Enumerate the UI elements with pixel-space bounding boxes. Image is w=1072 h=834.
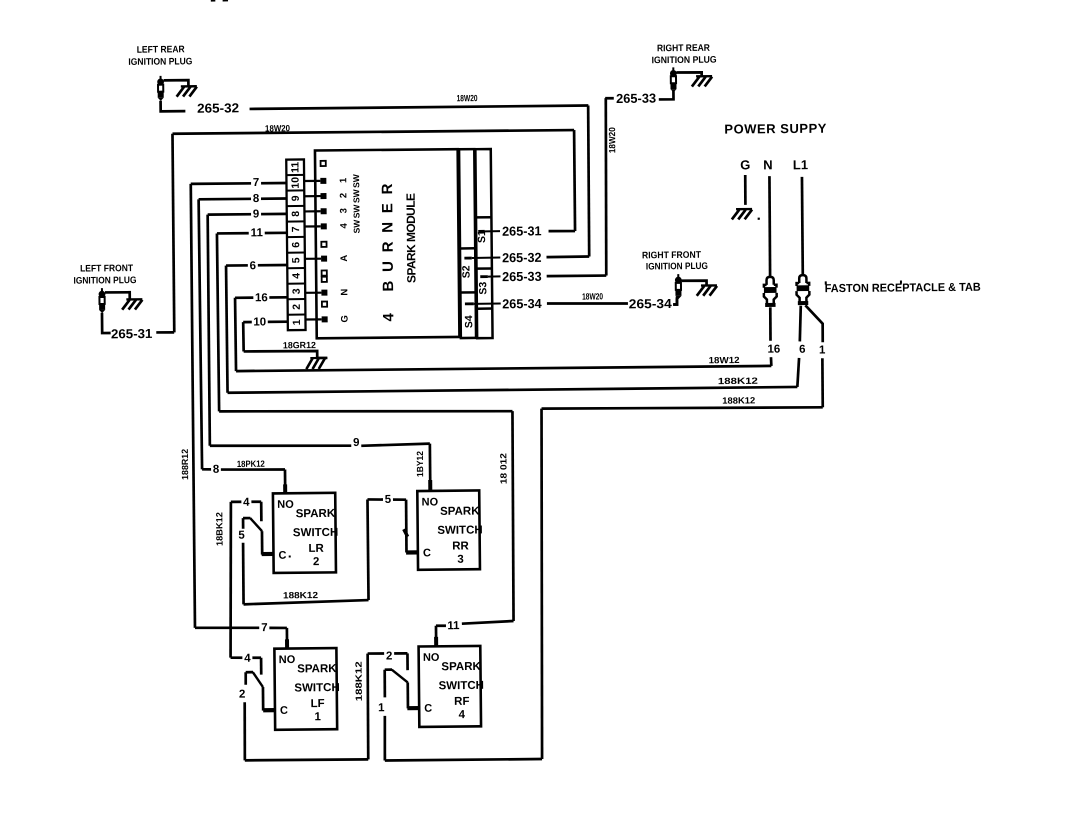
LF terminal 2 tick [244, 672, 247, 685]
wire S4 label to right front plug [547, 303, 628, 304]
wire strip to module pin [305, 258, 321, 260]
svg-text:3: 3 [339, 208, 350, 213]
svg-text:265-33: 265-33 [616, 91, 656, 106]
svg-text:11: 11 [289, 162, 301, 173]
svg-text:SPARK: SPARK [441, 661, 481, 673]
svg-text:SW: SW [351, 204, 361, 219]
spark plug left rear [160, 76, 162, 79]
svg-text:4: 4 [339, 222, 350, 228]
RF lever diagonal [392, 669, 408, 682]
svg-text:5: 5 [290, 257, 302, 263]
faston receptacle on N [766, 277, 773, 285]
wire LR 5 down [242, 543, 245, 605]
outer column divider [476, 267, 491, 270]
spark switch LF S1 box [274, 648, 337, 730]
svg-text:6: 6 [250, 260, 257, 272]
svg-text:6: 6 [799, 344, 806, 356]
svg-text:2: 2 [291, 304, 303, 310]
pin dash S3 [480, 275, 488, 278]
module connector strip J1 [286, 159, 305, 330]
wire terminal 11 riser [217, 233, 219, 411]
speck after C [289, 555, 291, 557]
wire 265-32 vertical drop [588, 106, 590, 257]
svg-text:LF: LF [311, 698, 325, 710]
wire left rear plug to 265-32 [161, 100, 186, 111]
outer column divider [476, 216, 491, 219]
svg-text:LEFT FRONT: LEFT FRONT [80, 263, 133, 275]
wire strip to module pin [304, 180, 320, 182]
wire 265-31 left riser [172, 134, 174, 333]
module output column inner [459, 149, 476, 338]
module pin (open) [322, 277, 327, 282]
wire right front plug to ground [681, 281, 706, 286]
svg-text:SPARK: SPARK [297, 663, 337, 675]
strip cell divider [287, 220, 305, 222]
svg-text:6: 6 [290, 242, 302, 248]
wire N faston to 16 [769, 307, 772, 340]
svg-text:IGNITION PLUG: IGNITION PLUG [73, 275, 136, 287]
svg-text:NO: NO [277, 499, 294, 511]
svg-text:IGNITION PLUG: IGNITION PLUG [128, 56, 192, 68]
svg-text:G: G [740, 157, 750, 172]
inner column divider [460, 291, 475, 294]
strip cell divider [287, 267, 305, 269]
svg-text:A: A [339, 255, 350, 262]
svg-text:RF: RF [454, 696, 469, 708]
module pin (filled) [321, 290, 327, 296]
wire 7 to LF NO [195, 627, 259, 628]
svg-text:NO: NO [423, 652, 440, 664]
svg-text:18W20: 18W20 [265, 123, 290, 133]
svg-text:18W20: 18W20 [607, 127, 617, 153]
wire RR5 riser [367, 499, 368, 600]
wire S3 to label [488, 275, 501, 277]
wire L1 faston tab branch diagonal [805, 305, 822, 342]
strip cell divider [287, 236, 305, 238]
wire terminal 16 riser [234, 298, 238, 371]
wire 265-34 hook to plug [673, 297, 677, 305]
svg-text:265-31: 265-31 [502, 223, 542, 238]
wire strip to module pin [304, 195, 320, 197]
svg-text:9: 9 [290, 195, 302, 201]
wire right rear plug to ground [676, 72, 701, 76]
svg-text:N: N [339, 289, 350, 296]
svg-text:16: 16 [255, 292, 268, 304]
svg-text:4: 4 [291, 273, 303, 279]
RF terminal 1 tick [383, 670, 386, 698]
svg-text:4 BURNER: 4 BURNER [379, 183, 397, 321]
wire strip to module pin [305, 318, 321, 320]
wire G down [744, 175, 747, 205]
wire strip to module pin [305, 225, 321, 227]
spark switch RF S4 box [419, 646, 481, 727]
svg-text:3: 3 [291, 288, 303, 294]
strip cell divider [287, 283, 305, 285]
svg-text:C: C [278, 550, 286, 562]
wire LR lever to common [261, 531, 264, 554]
svg-text:SWITCH: SWITCH [293, 527, 338, 539]
svg-text:SPARK: SPARK [440, 505, 480, 517]
spark plug right front [677, 274, 679, 277]
wire 6 to 18BK12 corner [797, 358, 799, 387]
svg-text:1: 1 [378, 702, 385, 714]
wire 18BK12 LR5 to RR5 [244, 600, 369, 604]
wire S1 to label [485, 230, 500, 232]
strip cell divider [288, 298, 306, 300]
wire right front plug to 265-34 [673, 298, 677, 304]
svg-text:4: 4 [243, 497, 250, 509]
RF terminal label 11 bg [445, 620, 461, 633]
svg-text:18W20: 18W20 [582, 291, 603, 301]
wire terminal 8 riser [199, 199, 202, 469]
svg-text:4: 4 [459, 709, 466, 721]
module pin (open) [321, 161, 326, 166]
wire module terminal 10 [243, 320, 288, 323]
svg-text:SWITCH: SWITCH [439, 680, 484, 692]
wire module terminal 6 [226, 264, 287, 267]
svg-text:7: 7 [253, 177, 260, 189]
wire big riser down to RF common [539, 409, 545, 759]
svg-text:G: G [340, 315, 351, 322]
wire LR NO pin drop [284, 470, 287, 494]
svg-text:C: C [280, 705, 288, 717]
switch RR common thick wire [406, 550, 419, 554]
strip cell divider [286, 174, 304, 176]
svg-text:188K12: 188K12 [354, 661, 364, 701]
wire terminal 6 riser [226, 266, 228, 393]
svg-text:265-32: 265-32 [197, 100, 239, 115]
wire LF2 riser to RF2 [367, 654, 368, 760]
module pin (filled) [321, 223, 327, 229]
svg-text:265-33: 265-33 [502, 269, 542, 284]
svg-text:18BK12: 18BK12 [214, 512, 224, 546]
svg-text:LR: LR [308, 543, 324, 555]
wire LF 4 contact drop [260, 658, 263, 675]
svg-text:11: 11 [447, 620, 460, 632]
svg-text:9: 9 [253, 208, 260, 220]
svg-text:10: 10 [253, 316, 266, 328]
svg-text:1: 1 [819, 344, 826, 356]
svg-text:3: 3 [457, 554, 464, 566]
wire 18GR12 to chassis ground [244, 351, 328, 359]
svg-text:SW: SW [352, 219, 362, 234]
wire 265-31 top horizontal [172, 130, 574, 134]
wire terminal 9 riser [208, 215, 210, 446]
wire RR terminal 5 horizontal [367, 498, 406, 502]
wire module terminal 11 [217, 231, 287, 234]
svg-text:10: 10 [290, 177, 302, 189]
speck near ground [758, 218, 760, 220]
LR lever stub [243, 517, 250, 520]
svg-text:2: 2 [313, 556, 320, 568]
wire left front plug to ground [105, 292, 130, 299]
svg-text:IGNITION PLUG: IGNITION PLUG [652, 55, 717, 67]
svg-text:S2: S2 [460, 265, 472, 278]
svg-text:LEFT REAR: LEFT REAR [137, 44, 185, 55]
wire 265-33 dash to vertical [605, 97, 614, 100]
switch LF common thick wire [263, 708, 276, 712]
svg-text:SWITCH: SWITCH [437, 524, 482, 536]
svg-text:SPARK: SPARK [296, 508, 336, 520]
svg-text:NO: NO [279, 654, 296, 666]
svg-text:8: 8 [290, 211, 302, 217]
svg-text:1: 1 [314, 711, 321, 723]
svg-text:RR: RR [452, 540, 469, 552]
svg-text:265-34: 265-34 [629, 296, 673, 311]
wire RR NO pin drop [429, 444, 432, 491]
wire LF terminal 4 horizontal [231, 656, 262, 659]
ground 18GR12 chassis [310, 357, 327, 359]
svg-text:188K12: 188K12 [722, 395, 755, 405]
wire right rear plug to 265-33 [659, 91, 674, 99]
wire strip to module pin [305, 292, 321, 294]
module pin (open) [322, 302, 327, 307]
svg-text:1: 1 [291, 319, 303, 325]
svg-text:NO: NO [422, 496, 439, 508]
svg-text:8: 8 [253, 193, 260, 205]
svg-text:18W12: 18W12 [709, 355, 740, 365]
wire RF lever to common [406, 682, 409, 708]
wire 265-33 vertical to module S3 [605, 98, 608, 275]
svg-text:C: C [423, 547, 431, 559]
wire 18BK12 from big riser to L1-1 [542, 406, 823, 410]
wire RF NO pin drop [435, 626, 438, 647]
svg-text:188K12: 188K12 [283, 590, 318, 600]
switch RF common thick wire [407, 706, 420, 710]
module output column outer [475, 149, 492, 338]
svg-text:L1: L1 [793, 157, 808, 172]
svg-text:9: 9 [353, 437, 360, 449]
svg-text:SW: SW [351, 173, 361, 188]
speck quote marks [825, 281, 827, 284]
svg-text:RIGHT FRONT: RIGHT FRONT [642, 250, 701, 262]
wire S2 label to riser [546, 255, 589, 258]
spark switch RR S3 box [417, 490, 480, 569]
ground power supply G [736, 208, 752, 211]
wire L1 faston to 6 [799, 306, 801, 342]
wire LF2 bottom horizontal [245, 759, 368, 760]
svg-text:N: N [763, 157, 773, 172]
svg-text:265-32: 265-32 [502, 250, 542, 265]
svg-text:S4: S4 [463, 315, 475, 328]
LR lever diagonal [250, 518, 262, 531]
LF lever diagonal [253, 672, 263, 687]
svg-text:16: 16 [767, 344, 780, 356]
wire 16 to 18W12 corner [770, 357, 773, 366]
module pin (open) [321, 242, 326, 247]
wire strip to module pin [304, 210, 320, 212]
wire 18BK12 LR4 to LF4 vertical [229, 502, 232, 658]
wire 18 012 riser down [512, 411, 515, 621]
faston receptacle on L1 [799, 275, 806, 283]
svg-text:2: 2 [386, 650, 393, 662]
RR lever nub [404, 529, 408, 537]
svg-text:2: 2 [239, 689, 246, 701]
LR terminal 5 tick [242, 518, 245, 529]
svg-text:11: 11 [251, 227, 264, 239]
svg-text:5: 5 [238, 530, 245, 542]
wire LR terminal 4 horizontal [231, 500, 261, 503]
wire 11 to RF NO [462, 621, 514, 624]
wire module terminal 16 [235, 296, 288, 299]
svg-text:18GR12: 18GR12 [283, 340, 316, 350]
wire module terminal 8 [199, 197, 287, 201]
wire LF NO pin drop [286, 628, 289, 649]
svg-text:RIGHT REAR: RIGHT REAR [657, 43, 710, 55]
LF lever stub [246, 671, 253, 674]
svg-text:265-31: 265-31 [111, 326, 153, 341]
wire terminal 7 riser [191, 184, 195, 628]
svg-text:SPARK MODULE: SPARK MODULE [404, 193, 419, 283]
wire 265-31 to left riser [156, 331, 174, 334]
wire S3 label to riser [547, 274, 607, 277]
svg-text:2: 2 [338, 193, 349, 198]
svg-text:S3: S3 [477, 282, 489, 295]
svg-text:FASTON RECEPTACLE & TAB: FASTON RECEPTACLE & TAB [825, 282, 981, 295]
wire left rear plug to ground [164, 80, 189, 86]
wire terminal 11 horizontal to 18 012 riser [219, 409, 512, 414]
svg-text:1: 1 [338, 177, 349, 183]
svg-text:4: 4 [244, 653, 251, 665]
svg-text:POWER SUPPY: POWER SUPPY [724, 121, 826, 137]
spark plug right rear [672, 67, 674, 70]
strip cell divider [287, 205, 305, 207]
pin dash S4 [465, 302, 474, 305]
svg-text:IGNITION PLUG: IGNITION PLUG [646, 261, 708, 273]
wire 18PK12 terminal 8 to LR NO [202, 468, 215, 471]
ground left rear [181, 85, 197, 88]
inner column divider [460, 247, 475, 250]
wire 1 to 18BK12 corner [821, 358, 824, 407]
svg-text:SWITCH: SWITCH [294, 682, 339, 694]
page header crop marks [211, 0, 216, 2]
outer column divider [477, 307, 492, 310]
wire L1 down [802, 177, 803, 274]
ground right rear [696, 75, 712, 78]
RF lever stub [385, 668, 392, 671]
wire 265-31 vertical drop to S1 [573, 130, 577, 231]
wire LF lever to common [262, 687, 265, 711]
pin dash S2 [464, 257, 471, 260]
wire module terminal 9 [208, 213, 287, 216]
module pin (filled) [321, 208, 327, 214]
wire S2 to label [472, 256, 501, 258]
svg-text:SW: SW [351, 188, 361, 203]
wire module terminal 7 [191, 182, 287, 186]
wire 9 to RR NO [210, 444, 352, 447]
svg-text:8: 8 [213, 464, 220, 476]
module pin (filled) [321, 256, 327, 262]
svg-text:18 012: 18 012 [498, 453, 508, 484]
wire left front plug to 265-31 [102, 313, 111, 333]
ground left front [126, 298, 142, 301]
strip cell divider [287, 252, 305, 254]
svg-text:265-34: 265-34 [502, 296, 542, 311]
wire 18W12 terminal 16 to N [236, 366, 771, 371]
svg-text:C: C [424, 703, 432, 715]
switch LR common thick wire [262, 552, 275, 556]
wire RF 1 down [383, 716, 387, 761]
wire 18BK12 terminal 6 to L1-6 [228, 387, 798, 393]
svg-text:188R12: 188R12 [180, 449, 190, 480]
spark switch LR S2 box [273, 493, 336, 573]
wire 265-32 net to module S2 [250, 106, 589, 109]
svg-text:7: 7 [290, 226, 302, 232]
wire RF terminal 2 horizontal [368, 652, 408, 655]
ground right front [701, 284, 717, 287]
wire LF 2 down [243, 702, 247, 760]
wire S1 label to riser [549, 230, 576, 233]
wire RF1 bottom horizontal to big riser [385, 759, 542, 760]
wire LR 4 contact drop [260, 502, 263, 522]
spark plug left front [101, 288, 103, 291]
svg-text:5: 5 [385, 494, 392, 506]
wire S4 to label [474, 302, 501, 304]
wire RR 5 contact drop [405, 500, 408, 553]
pin dash S1 [478, 230, 484, 233]
wire terminal 10 riser [242, 322, 245, 351]
svg-text:7: 7 [261, 622, 268, 634]
strip cell divider [288, 314, 306, 316]
svg-text:18PK12: 18PK12 [237, 459, 265, 469]
strip cell divider [287, 189, 305, 191]
wire RF 2 contact drop [406, 653, 409, 670]
4 burner spark module U1 box [315, 149, 459, 338]
module pin (filled) [320, 193, 326, 199]
module pin (filled) [322, 316, 328, 322]
wire N down [769, 176, 770, 276]
svg-text:1BY12: 1BY12 [415, 451, 425, 477]
module pin (open) [322, 270, 327, 275]
svg-text:18W20: 18W20 [457, 93, 478, 103]
module pin (filled) [320, 178, 326, 184]
svg-text:188K12: 188K12 [718, 376, 758, 386]
